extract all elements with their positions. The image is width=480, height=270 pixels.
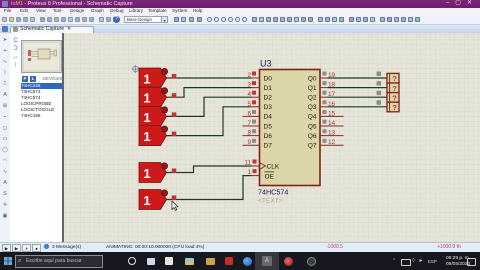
- title bar app icon: [2, 1, 8, 7]
- mouse cursor: [172, 201, 178, 211]
- object preview window: [21, 40, 62, 73]
- svg-text:CLK: CLK: [267, 163, 280, 170]
- search box: [15, 255, 103, 268]
- svg-text:1: 1: [143, 129, 150, 144]
- toggle 3: [139, 106, 176, 126]
- svg-text:Q0: Q0: [308, 75, 317, 82]
- svg-text:1: 1: [143, 91, 150, 106]
- title bar: [0, 0, 480, 8]
- Q labels: [308, 75, 317, 149]
- D labels: [264, 75, 280, 180]
- tab bar home icon: [2, 26, 8, 32]
- svg-text:D6: D6: [264, 133, 273, 140]
- svg-text:D2: D2: [264, 95, 273, 102]
- wire t2 to pin3: [167, 88, 252, 98]
- svg-text:OE: OE: [265, 173, 275, 180]
- message info: [44, 243, 54, 251]
- svg-text:Q7: Q7: [308, 143, 317, 150]
- svg-text:1: 1: [143, 110, 150, 125]
- svg-text:Q3: Q3: [308, 104, 317, 111]
- window buttons: [444, 0, 480, 8]
- right pin numbers: [328, 72, 336, 146]
- svg-text:D4: D4: [264, 114, 273, 121]
- system tray: [392, 258, 400, 265]
- svg-text:<TEXT>: <TEXT>: [258, 198, 283, 205]
- svg-text:?: ?: [392, 74, 397, 83]
- gray squares chip right pins: [323, 72, 327, 143]
- svg-text:1: 1: [143, 166, 150, 181]
- device list: [21, 83, 62, 120]
- probe 4: [387, 102, 399, 112]
- svg-text:U3: U3: [260, 59, 272, 69]
- logic toggles (6x): [139, 68, 176, 210]
- logic state squares: chip left pins (red 2-5, CLK, OE): [252, 72, 257, 174]
- origin marker: [132, 65, 140, 73]
- windows logo: [4, 257, 12, 265]
- taskbar: [0, 252, 480, 270]
- left pin stubs 6-9: [243, 116, 260, 145]
- right pin stubs 12-15: [320, 116, 344, 145]
- svg-text:Q4: Q4: [308, 114, 317, 121]
- wire t1 to pin2: [167, 77, 252, 79]
- OE overline: [265, 171, 275, 173]
- gray squares at probe pins: [377, 72, 382, 105]
- left panel: [10, 33, 62, 242]
- probe 3: [387, 93, 399, 103]
- svg-text:D1: D1: [264, 85, 273, 92]
- wires left (dark green): [167, 78, 252, 200]
- svg-text:D0: D0: [264, 75, 273, 82]
- orientation buttons left of preview: [11, 37, 20, 77]
- svg-text:74HC574: 74HC574: [258, 188, 288, 197]
- logic probes (4x): [387, 73, 399, 112]
- left pin numbers: [244, 72, 251, 176]
- clock triangle: [260, 163, 266, 170]
- svg-text:D3: D3: [264, 104, 273, 111]
- wires right Q0-Q3 to probes: [328, 78, 388, 107]
- status bar: [0, 242, 480, 253]
- svg-text:?: ?: [392, 93, 397, 102]
- svg-text:?: ?: [392, 103, 397, 112]
- svg-text:Q5: Q5: [308, 123, 317, 130]
- svg-text:D7: D7: [264, 143, 273, 150]
- left mode-icon strip: [0, 33, 11, 242]
- schematic canvas: [64, 33, 480, 242]
- P / L buttons and DEVICES header: [22, 76, 28, 82]
- wire t3 to pin4: [167, 97, 252, 116]
- svg-text:1: 1: [143, 193, 150, 208]
- probe 2: [387, 83, 399, 93]
- preview mini schematic: [23, 42, 60, 71]
- svg-text:Q1: Q1: [308, 85, 317, 92]
- gray squares chip left pins 6-9: [252, 110, 256, 143]
- menu bar: [0, 8, 480, 14]
- svg-text:Q6: Q6: [308, 133, 317, 140]
- red stub segments into chip left: [252, 78, 260, 176]
- toggle 4: [139, 126, 176, 146]
- svg-text:?: ?: [392, 84, 397, 93]
- animation control buttons: [2, 244, 42, 252]
- svg-text:Q2: Q2: [308, 95, 317, 102]
- wire t6 to OE pin1: [167, 176, 252, 200]
- toggle 5 (CLK): [139, 163, 176, 183]
- taskbar icons: [108, 252, 338, 270]
- divider between panel and canvas: [62, 33, 64, 242]
- toggle 1: [139, 68, 176, 88]
- chip U3 body: [260, 70, 321, 186]
- wire t4 to pin5: [167, 107, 252, 136]
- wire t5 to CLK pin11: [167, 166, 252, 173]
- tab bar: [0, 25, 480, 34]
- svg-text:D5: D5: [264, 123, 273, 130]
- title text: [11, 1, 311, 8]
- toggle 2: [139, 87, 176, 107]
- active tab: [10, 26, 94, 34]
- main toolbar: [0, 14, 480, 25]
- probe 1: [387, 73, 399, 83]
- toggle 6 (OE): [139, 190, 176, 210]
- svg-text:1: 1: [143, 72, 150, 87]
